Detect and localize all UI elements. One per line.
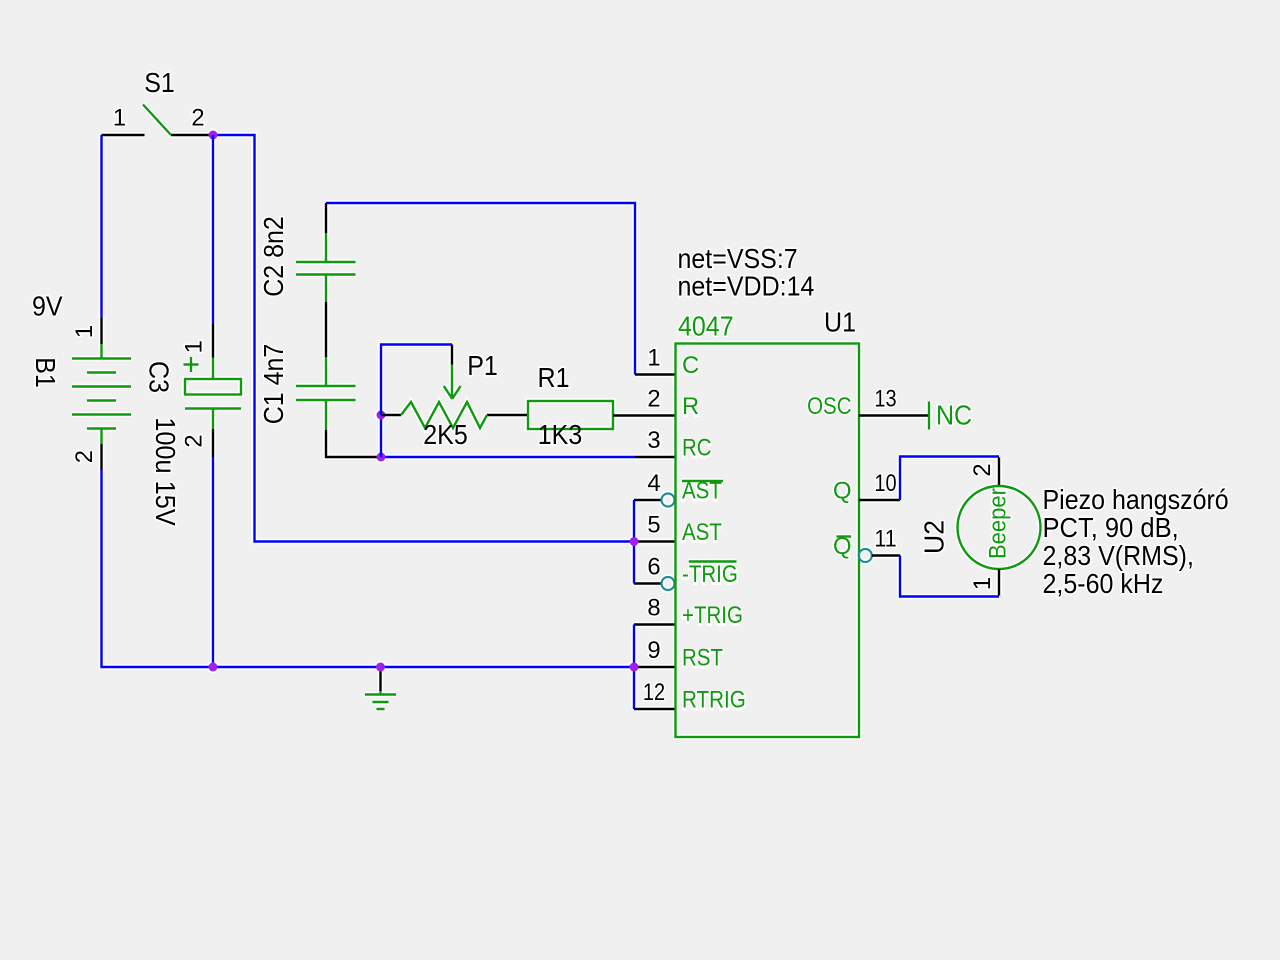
junction C3 / ground rail [209,663,218,672]
inverted pin circle U1 pin6 [662,577,675,590]
U1 pin stub 13 OSC [859,414,929,416]
junction U1 pin5 [630,537,639,546]
U1 pin stub 10 Q [859,499,900,501]
beeper U2 [958,458,1041,596]
U1 pin stub 6 [634,582,662,584]
wire Q to beeper pin2 [900,457,999,501]
wire Qbar to beeper pin1 [900,556,999,597]
capacitor C2 [296,203,356,302]
svg-text:PCT, 90 dB,: PCT, 90 dB, [1043,512,1179,543]
svg-text:2K5: 2K5 [423,419,468,450]
svg-text:3: 3 [647,427,660,454]
svg-text:1: 1 [113,105,126,132]
svg-text:C: C [682,352,699,379]
wire battery top to switch pin1 [100,135,102,318]
svg-text:RST: RST [682,645,723,672]
svg-text:1: 1 [969,577,996,590]
junction at switch pin2 [209,131,218,140]
svg-text:R: R [682,393,699,420]
svg-text:1: 1 [181,340,208,353]
svg-text:U2: U2 [919,520,950,554]
svg-text:C2 8n2: C2 8n2 [258,216,289,297]
U1 pin stub 1 [635,373,676,375]
svg-text:2,5-60 kHz: 2,5-60 kHz [1043,568,1164,599]
svg-text:+TRIG: +TRIG [682,602,743,629]
svg-text:Beeper: Beeper [985,488,1012,559]
svg-text:-TRIG: -TRIG [682,561,738,588]
wire C3 bottom to ground rail [212,457,214,667]
svg-text:net=VDD:14: net=VDD:14 [678,271,815,302]
junction U1 pin9 [630,663,639,672]
svg-text:S1: S1 [144,67,175,98]
svg-text:13: 13 [874,386,896,413]
svg-text:U1: U1 [824,307,856,338]
ground [365,667,396,709]
svg-text:12: 12 [643,679,665,706]
U1 pin stub 11 Qbar [872,554,900,556]
svg-text:11: 11 [874,526,896,553]
svg-text:RTRIG: RTRIG [682,687,746,714]
capacitor C3 (electrolytic) [184,324,242,457]
svg-text:1: 1 [71,325,98,338]
IC U1 4047 body [676,344,860,738]
U1 pin stub 3 [635,456,676,458]
overline Qbar [837,535,852,537]
svg-text:4: 4 [647,470,660,497]
svg-text:2: 2 [71,450,98,463]
U1 pin stub 8 [634,623,676,625]
svg-text:2: 2 [647,386,660,413]
svg-text:AST: AST [682,519,722,546]
wire hook pins 8-9-12 [633,625,635,710]
svg-text:4047: 4047 [678,311,734,342]
svg-text:C1 4n7: C1 4n7 [258,344,289,425]
svg-text:NC: NC [936,400,972,431]
NC marker bar [928,402,930,430]
U1 pin stub 4 [634,499,662,501]
inverted pin circle U1 pin4 [662,494,675,507]
capacitor C1 [296,357,381,457]
junction RC rail [377,453,386,462]
svg-text:Piezo hangszóró: Piezo hangszóró [1043,484,1229,515]
junction ground rail [376,663,385,672]
svg-text:C3: C3 [144,361,175,393]
svg-text:RC: RC [682,435,712,462]
svg-text:2: 2 [181,434,208,447]
svg-text:10: 10 [874,470,896,497]
wire C2 to C1 pin stubs [325,302,327,357]
svg-text:OSC: OSC [807,393,851,420]
switch S1 [102,105,214,136]
svg-text:8: 8 [647,595,660,622]
wire RC rail to U1 pin3 [381,456,635,458]
junction P1 left terminal [377,411,386,420]
svg-text:1: 1 [647,345,660,372]
wire junction down to C3 [212,135,214,324]
overline TRIG pin6 [689,560,737,562]
svg-text:P1: P1 [467,350,498,381]
svg-text:2: 2 [969,463,996,476]
svg-text:6: 6 [647,554,660,581]
svg-text:B1: B1 [30,357,61,388]
wire battery bottom to ground rail [102,470,635,667]
svg-text:100u 15V: 100u 15V [150,417,181,526]
svg-text:9V: 9V [32,291,63,322]
svg-text:5: 5 [647,512,660,539]
svg-text:9: 9 [647,637,660,664]
wire top rail from C2 to U1 pin1 [326,203,635,375]
battery B1 [72,318,131,470]
overline AST pin4 [682,480,723,482]
svg-text:Q: Q [833,478,852,505]
wire P1 wiper loop [381,345,452,416]
U1 pin stub 9 [634,666,676,668]
svg-text:2,83 V(RMS),: 2,83 V(RMS), [1043,540,1194,571]
U1 pin stub 12 [634,708,676,710]
svg-text:1K3: 1K3 [538,419,583,450]
potentiometer P1 [381,345,528,429]
U1 pin stub 5 [634,540,676,542]
inverted pin circle U1 pin11 [859,549,872,562]
resistor R1 [528,401,676,429]
wire between P1 junctions [380,415,382,457]
wire hook pins 4-5-6 [633,500,635,584]
svg-text:R1: R1 [538,362,570,393]
svg-text:2: 2 [191,105,204,132]
svg-text:net=VSS:7: net=VSS:7 [678,243,798,274]
wire switch pin2 to AST node [213,135,634,542]
